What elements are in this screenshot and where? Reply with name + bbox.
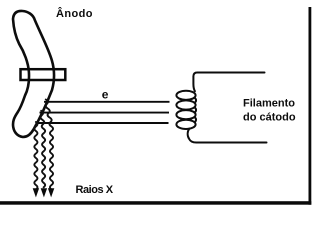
- svg-text:e: e: [102, 87, 109, 101]
- svg-text:Filamento: Filamento: [243, 98, 295, 110]
- svg-text:do cátodo: do cátodo: [243, 112, 296, 124]
- svg-text:Ânodo: Ânodo: [56, 7, 93, 20]
- svg-text:Raios X: Raios X: [76, 184, 114, 196]
